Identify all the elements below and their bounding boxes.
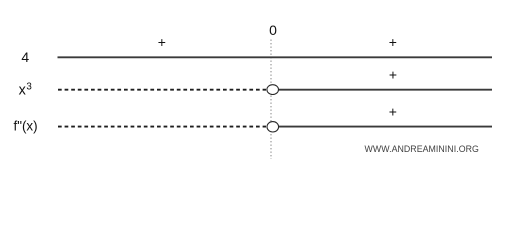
sign line row2 right: solid positive part	[279, 89, 492, 91]
sign line row1 (4): solid positive everywhere	[58, 56, 493, 58]
svg-text:WWW.ANDREAMININI.ORG: WWW.ANDREAMININI.ORG	[365, 144, 479, 154]
svg-text:x: x	[19, 82, 27, 98]
svg-text:+: +	[389, 104, 397, 120]
open circle row3 at x=0	[267, 122, 279, 132]
sign line row3 right: solid positive part	[279, 126, 492, 128]
sign line row2 left: dashed negative part	[58, 89, 266, 91]
svg-text:+: +	[158, 34, 166, 50]
svg-text:0: 0	[269, 22, 277, 38]
svg-text:+: +	[389, 67, 397, 83]
svg-text:4: 4	[21, 49, 29, 65]
open circle row2 at x=0	[267, 85, 279, 95]
svg-text:3: 3	[26, 82, 32, 93]
svg-text:f"(x): f"(x)	[14, 118, 38, 133]
svg-text:+: +	[389, 34, 397, 50]
vertical dotted line at x=0	[270, 40, 272, 160]
sign line row3 left: dashed part	[58, 126, 266, 128]
